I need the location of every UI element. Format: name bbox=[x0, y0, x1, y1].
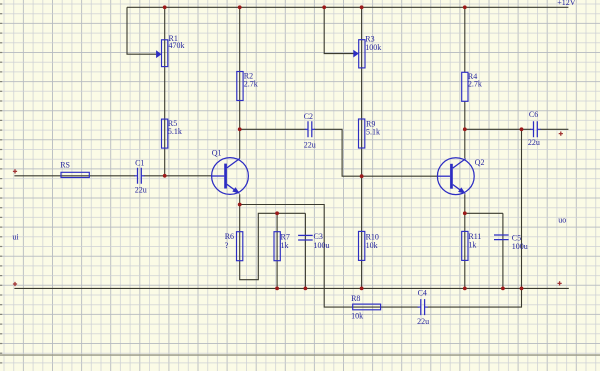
wire Q1 emitter stub bbox=[239, 194, 241, 204]
capacitor C3 100u bbox=[298, 232, 329, 250]
resistor R10 10k bbox=[359, 231, 379, 260]
svg-text:1k: 1k bbox=[281, 241, 289, 250]
port marker uo- bbox=[558, 281, 562, 285]
svg-text:2.7k: 2.7k bbox=[468, 80, 482, 89]
wire C1 to Q1 base bbox=[144, 175, 212, 177]
wire R11 branch bbox=[464, 213, 466, 288]
wire collector node to C2 bbox=[240, 128, 306, 130]
svg-text:R8: R8 bbox=[351, 294, 360, 303]
svg-text:RS: RS bbox=[60, 160, 70, 169]
wire C3 branch bbox=[304, 213, 306, 288]
junction (522,288) bbox=[520, 287, 524, 291]
svg-text:2.7k: 2.7k bbox=[244, 80, 258, 89]
svg-text:C3: C3 bbox=[314, 232, 323, 241]
wire Q1 collector stub bbox=[239, 129, 241, 158]
wire R2 branch bbox=[239, 7, 241, 129]
svg-text:C4: C4 bbox=[418, 289, 427, 298]
wire C2 to Q2 base bbox=[314, 129, 438, 176]
junction (324,7) bbox=[322, 5, 326, 9]
wire Q2 collector stub bbox=[464, 129, 466, 158]
junction (465,288) bbox=[463, 287, 467, 291]
wire C5 branch bbox=[502, 213, 504, 288]
port marker ui- bbox=[13, 282, 17, 286]
transistor Q2 bbox=[437, 158, 484, 195]
svg-text:22u: 22u bbox=[304, 140, 316, 149]
junction (165,176) bbox=[163, 174, 167, 178]
resistor R11 1k bbox=[462, 231, 482, 260]
capacitor C6 22u bbox=[528, 110, 541, 147]
resistor R4 2.7k bbox=[462, 72, 482, 102]
svg-text:470k: 470k bbox=[169, 41, 185, 50]
wire R3/R9/R10 branch x=361.6 bbox=[361, 7, 363, 288]
svg-text:C2: C2 bbox=[304, 112, 313, 121]
resistor R2 2.7k bbox=[237, 71, 258, 100]
wire C6 to output stub bbox=[540, 128, 568, 130]
svg-text:R6: R6 bbox=[225, 232, 234, 241]
wire R7 branch bbox=[276, 213, 278, 288]
svg-text:Q1: Q1 bbox=[212, 149, 222, 158]
junction (362,288) bbox=[360, 287, 364, 291]
svg-text:10k: 10k bbox=[366, 241, 378, 250]
svg-text:100u: 100u bbox=[314, 241, 330, 250]
svg-text:22u: 22u bbox=[528, 138, 540, 147]
transistor Q1 bbox=[212, 149, 249, 195]
capacitor C1 22u bbox=[134, 159, 147, 195]
wire collector node to C6 bbox=[465, 128, 531, 130]
junction (465,7) bbox=[463, 5, 467, 9]
svg-text:?: ? bbox=[225, 241, 229, 250]
svg-text:R3: R3 bbox=[365, 34, 374, 43]
junction (165,7) bbox=[163, 5, 167, 9]
wire R4 bottom to collector node bbox=[464, 101, 466, 129]
resistor RS bbox=[60, 160, 89, 177]
port marker uo+ bbox=[559, 132, 563, 136]
resistor R9 5.1k bbox=[359, 119, 381, 148]
resistor R5 5.1k bbox=[162, 119, 182, 148]
wire C4/R8 feedback to Q1 emitter bbox=[240, 205, 419, 308]
svg-text:+12V: +12V bbox=[557, 0, 576, 7]
wire bottom common rail bbox=[14, 287, 568, 289]
svg-text:100k: 100k bbox=[365, 43, 381, 52]
port marker ui+ bbox=[13, 169, 17, 173]
junction (465,213) bbox=[463, 211, 467, 215]
junction (362,176) bbox=[360, 174, 364, 178]
junction (522,129) bbox=[520, 127, 524, 131]
resistor R8 10k bbox=[351, 294, 381, 320]
svg-text:Q2: Q2 bbox=[475, 158, 485, 167]
wire R1/R5 branch x=164.7 bbox=[164, 7, 166, 176]
svg-text:C1: C1 bbox=[135, 159, 144, 168]
svg-text:5.1k: 5.1k bbox=[168, 127, 182, 136]
svg-text:100u: 100u bbox=[512, 242, 528, 251]
junction (240,7) bbox=[238, 5, 242, 9]
junction (503,288) bbox=[501, 287, 505, 291]
capacitor C2 22u bbox=[304, 112, 316, 149]
svg-text:10k: 10k bbox=[351, 311, 363, 320]
wire +12V to R4 top bbox=[464, 7, 466, 72]
junction (240,204) bbox=[238, 203, 242, 207]
wire output node down to C4 bbox=[427, 129, 522, 307]
sheet border bottom edge bbox=[0, 354, 600, 356]
svg-text:C6: C6 bbox=[529, 110, 538, 119]
junction (362,7) bbox=[360, 5, 364, 9]
potentiometer R3 100k bbox=[353, 34, 381, 68]
wire R1 wiper to +12V rail bbox=[127, 7, 156, 54]
resistor R6 ? bbox=[225, 232, 243, 261]
svg-text:ui: ui bbox=[12, 233, 19, 242]
svg-text:5.1k: 5.1k bbox=[366, 128, 380, 137]
junction (277,213) bbox=[275, 211, 279, 215]
wire +12V top rail bbox=[127, 6, 568, 8]
resistor R7 1k bbox=[274, 232, 290, 261]
svg-text:22u: 22u bbox=[135, 185, 147, 194]
potentiometer R1 470k bbox=[156, 34, 184, 67]
wire R6 branch jog to R7/C3 node bbox=[240, 205, 306, 280]
svg-text:1k: 1k bbox=[468, 241, 476, 250]
capacitor C4 22u bbox=[417, 289, 429, 326]
junction (465,129) bbox=[463, 127, 467, 131]
junction (277,288) bbox=[275, 287, 279, 291]
wire Q2 emitter to C5 bbox=[465, 212, 503, 214]
junction (305,288) bbox=[304, 287, 308, 291]
svg-text:uo: uo bbox=[558, 215, 566, 224]
wire input ui to C1 bbox=[14, 175, 135, 177]
svg-text:22u: 22u bbox=[417, 317, 429, 326]
wire Q2 emitter stub bbox=[464, 194, 466, 213]
junction (240,129) bbox=[238, 127, 242, 131]
wire R3 wiper to +12V rail bbox=[324, 7, 354, 53]
capacitor C5 100u bbox=[494, 233, 528, 251]
sheet border left ruler ticks bbox=[0, 3, 2, 363]
